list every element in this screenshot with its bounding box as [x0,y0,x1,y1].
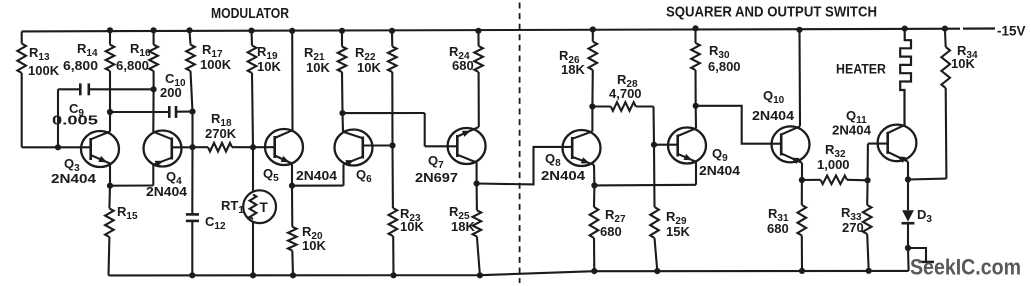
junction R14/top rail [107,27,113,33]
label Q3 [51,156,97,186]
junction R34/top rail [942,26,948,32]
wire Q3/Q4 emitter coupling [110,165,153,186]
svg-text:4,700: 4,700 [609,86,642,101]
label C12 [205,214,226,232]
label R18 value [205,111,237,141]
wire R19/RT1 line [252,31,254,276]
junction R23/bottom rail [390,272,396,278]
wire R22/R23 line [392,31,394,275]
svg-text:2N404: 2N404 [752,108,795,123]
capacitor C10 [110,106,193,118]
transistor Q3 [81,131,119,167]
resistor R24 [474,46,483,72]
wire Q7 base path [343,113,458,146]
label Q11 [832,108,872,138]
junction R33/bottom rail [866,268,872,274]
label R19 value [257,44,281,74]
label R21 value [304,45,330,75]
svg-text:680: 680 [600,224,622,239]
wire R15 leads [109,186,111,276]
wire R21 line [342,31,343,132]
resistor R30 [691,43,700,70]
svg-text:2N404: 2N404 [832,123,872,138]
wire R16 line [152,30,154,131]
label C9 value [52,101,98,128]
svg-text:18K: 18K [561,62,585,77]
resistor R28 [611,102,636,111]
label Q9 [699,146,741,178]
svg-text:SeekIC.com: SeekIC.com [910,255,1021,280]
svg-text:200: 200 [160,85,182,100]
label Q7 [415,153,458,185]
label Q4 [146,169,188,199]
resistor R14 [106,45,115,71]
svg-text:10K: 10K [357,60,381,75]
svg-text:2N697: 2N697 [415,170,458,185]
junction C9/Q3 base [55,144,61,150]
resistor R25 [473,210,482,236]
label R14 value [63,41,98,73]
wire R25 leads [477,184,480,276]
wire R34 line [908,29,946,180]
label Q5 [263,166,338,184]
junction Q4 base/R18/C12 line [189,144,195,150]
resistor R33 [863,205,872,234]
ground/common bottom rail [109,271,909,276]
junction heater/top rail [902,26,908,32]
label R33 value [841,205,864,235]
svg-text:6,800: 6,800 [708,59,741,74]
svg-text:10K: 10K [400,219,424,234]
label R17 value [200,42,232,72]
resistor R26 [589,42,598,71]
junction R17/top rail [186,27,192,33]
junction C10/R14 line [107,109,113,115]
resistor R27 [590,207,599,238]
wire R17/C12 line [190,30,193,275]
junction R27/bottom rail [591,268,597,274]
transistor Q11 [878,125,917,163]
svg-text:T: T [260,200,269,215]
wire Q8 collector up [591,107,593,132]
label D3 [917,207,932,225]
wire R14 line rail to Q3 collector [109,30,111,131]
junction R19/top rail [248,28,254,34]
svg-text:680: 680 [767,221,789,236]
wire R28 leads [592,107,654,145]
junction R29/bottom rail [654,268,660,274]
svg-text:270K: 270K [205,126,237,141]
wire Q3 emitter to node [109,164,111,186]
label C10 value [160,71,186,100]
junction R20/bottom rail [290,272,296,278]
label R16 value [116,41,151,73]
junction R21/Q6 collector/Q7 base wire [339,110,345,116]
svg-text:2N404: 2N404 [296,168,338,183]
junction R24/top rail [475,28,481,34]
label R28 value [609,72,642,101]
junction R22/Q6 base [389,142,395,148]
wire Q7 collector down [476,163,478,184]
capacitor C12 [186,214,199,221]
label R24 value [449,44,474,73]
junction R32/R33/Q11 base [865,177,871,183]
junction Q8 emitter/R27 [591,182,597,188]
junction RT1/bottom rail [250,272,256,278]
label R30 value [708,43,741,74]
label R32 value [817,142,850,172]
transistor Q4 [144,131,193,167]
net -15V top supply rail [22,29,995,32]
resistor R19 [248,46,257,74]
junction R30/top rail [692,25,698,31]
label Q10 [752,88,795,123]
heater element [900,29,911,125]
label Q8 [541,151,586,183]
junction R22/top rail [389,28,395,34]
output stub [908,248,934,262]
svg-text:2N404: 2N404 [146,184,188,199]
wire C9 stub to Q3 base node [57,89,59,147]
dashed section divider [519,3,521,284]
junction Q5 collector/top rail [289,28,295,34]
svg-text:6,800: 6,800 [63,58,98,73]
junction C10/R17 line [189,109,195,115]
label R13 value [28,45,60,78]
resistor R16 [149,45,158,71]
resistor R32 [821,176,848,185]
label R27 value [600,207,626,239]
resistor R23 [389,208,398,236]
svg-text:HEATER: HEATER [836,62,886,77]
wire R31 leads [801,180,803,271]
junction R26/top rail [590,26,596,32]
wire R29 leads [654,145,657,271]
junction Q10 emitter/R31/R32 [799,177,805,183]
label HEATER [836,62,886,77]
wire Q8 emitter down [593,165,596,186]
junction C12/bottom rail [189,272,195,278]
svg-text:1,000: 1,000 [817,157,850,172]
diode D3 [902,180,915,249]
label RT1 [221,198,244,216]
transistor Q5 [253,129,303,165]
label R29 value [666,209,690,239]
svg-text:2N404: 2N404 [51,171,97,186]
junction Q10 collector/top rail [796,27,802,33]
wire Q5/Q6 emitter coupling [292,164,344,185]
resistor R20 [288,227,297,251]
resistor R18 [208,143,232,152]
svg-text:2N404: 2N404 [699,163,741,178]
svg-text:10K: 10K [306,60,330,75]
wire Q11 base path [868,144,888,181]
wire Q8 base path [477,147,573,185]
wire R18 leads [193,146,254,148]
wire Q10 collector to rail [798,30,801,127]
svg-text:100K: 100K [28,63,60,78]
wire Q5 emitter to node [291,164,293,186]
resistor R22 [388,47,397,73]
wire Q10 base path [696,106,782,144]
wire R24 line [477,31,479,127]
transistor Q8 [563,130,601,166]
wire Q5 collector to rail [291,31,293,130]
resistor R21 [338,47,347,73]
svg-text:18K: 18K [451,219,475,234]
junction R16/top rail [151,27,157,33]
label R15 [117,204,138,222]
resistor R31 [798,205,807,236]
resistor R15 [105,208,114,237]
label R26 value [559,48,585,77]
svg-text:100K: 100K [200,57,232,72]
wire R30 line [694,28,696,105]
capacitor C9 [58,83,154,95]
wire Q9 collector up [695,106,697,129]
label R25 value [449,204,475,234]
transistor Q7 [448,127,486,164]
junction Q5 emitter/R20 [289,183,295,189]
junction Q7 collector/R25/Q8 base wire [474,180,480,186]
svg-text:6,800: 6,800 [116,58,149,73]
junction Q9 collector/R30 [693,103,699,109]
wire Q9 emitter down and left [594,162,696,186]
wire Q10 emitter down [801,163,803,180]
svg-text:10K: 10K [302,238,326,253]
label R31 value [767,206,789,236]
junction Q3 emitter/R15/Q4 emitter [107,183,113,189]
wire Q11 emitter down [907,162,909,180]
label R23 value [400,206,424,234]
label R20 value [302,224,326,253]
resistor R34 [941,47,950,88]
svg-text:SQUARER AND OUTPUT SWITCH: SQUARER AND OUTPUT SWITCH [666,4,877,21]
section title MODULATOR [211,5,289,22]
section title SQUARER AND OUTPUT SWITCH [666,4,877,21]
resistor R17 [186,45,195,71]
transistor Q10 [772,126,810,164]
resistor R13 [17,44,26,74]
label R34 value [951,43,978,71]
wire R20 leads [292,186,293,276]
transistor Q6 [335,130,393,167]
label Q6 [356,167,372,185]
wire left edge from rail to Q3 base [22,31,91,147]
junction R31/bottom rail [799,268,805,274]
junction R26/R28/Q8 collector [589,103,595,109]
junction C9/R16 line [151,86,157,92]
svg-text:10K: 10K [951,56,975,71]
junction R19/Q5 base [250,144,256,150]
svg-text:680: 680 [452,58,474,73]
svg-text:2N404: 2N404 [541,168,586,183]
thermistor RT1 [243,190,276,223]
svg-text:15K: 15K [666,224,690,239]
junction Q11 emitter/R34/D3 [905,176,911,182]
label -15V [997,24,1026,39]
svg-text:MODULATOR: MODULATOR [211,5,289,22]
label R22 value [355,45,381,75]
svg-text:270: 270 [842,220,864,235]
wire bottom rail right end up to D3 [907,248,910,271]
junction R21/top rail [339,28,345,34]
transistor Q9 [654,128,706,164]
svg-text:-15V: -15V [997,24,1026,39]
junction D3/output/bottom rail [905,245,911,251]
resistor R29 [650,207,659,238]
junction R28/Q9 base [651,142,657,148]
wire R33 leads [867,180,869,270]
svg-text:10K: 10K [257,59,281,74]
watermark SeekIC.com [910,255,1021,280]
wire R26 line [591,30,593,107]
junction R25/bottom rail [477,272,483,278]
wire R32 leads [802,179,868,182]
wire R27 leads [593,185,596,271]
